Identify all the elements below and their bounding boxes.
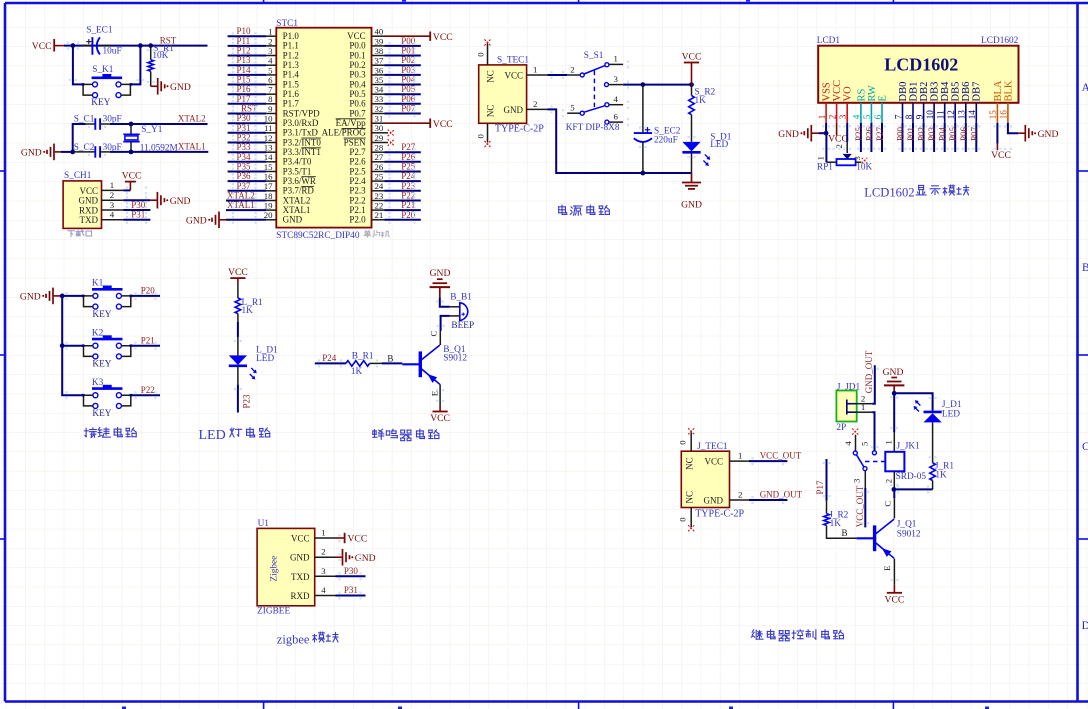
svg-text:6: 6 (268, 75, 273, 85)
svg-text:BEEP: BEEP (451, 321, 474, 331)
svg-text:P25: P25 (854, 126, 864, 141)
wire key right branch (131, 46, 141, 85)
resistor J_R1 (930, 461, 955, 489)
svg-text:TXD: TXD (291, 572, 310, 582)
svg-text:P27: P27 (875, 126, 885, 141)
svg-text:GND: GND (355, 553, 376, 564)
svg-text:10K: 10K (856, 163, 872, 173)
svg-text:2: 2 (883, 479, 893, 483)
svg-text:P1.7: P1.7 (283, 99, 300, 109)
svg-text:VCC: VCC (347, 31, 366, 41)
svg-text:P05: P05 (948, 126, 958, 141)
svg-text:1: 1 (110, 180, 114, 190)
wire gnd to crystal node (61, 151, 73, 153)
svg-text:DB2: DB2 (919, 82, 930, 102)
svg-text:P1.2: P1.2 (283, 50, 299, 60)
wire xtal2 (110, 123, 208, 125)
svg-text:P31: P31 (131, 210, 145, 220)
svg-text:P37: P37 (237, 181, 252, 191)
wire P23 (237, 385, 239, 413)
svg-text:P27: P27 (401, 142, 416, 152)
svg-text:E: E (882, 566, 892, 571)
svg-text:1: 1 (815, 156, 825, 160)
svg-text:XTAL2: XTAL2 (283, 195, 311, 205)
svg-text:19: 19 (264, 201, 273, 211)
svg-text:P0.2: P0.2 (349, 60, 365, 70)
power port VCC (mcu pin40) (385, 32, 453, 43)
power port VCC (lcd BLA) (991, 123, 1011, 161)
svg-text:P06: P06 (401, 94, 416, 104)
svg-text:5: 5 (268, 65, 273, 75)
wire switch pin3 to VCC rail (623, 84, 691, 86)
wire gnd node relay (892, 391, 933, 433)
svg-text:2: 2 (738, 489, 742, 499)
svg-text:S_CH1: S_CH1 (64, 171, 92, 181)
svg-text:P3.2/INT0: P3.2/INT0 (283, 137, 322, 147)
pin 0 top (S_TEC1) (475, 39, 490, 65)
svg-text:P00: P00 (401, 36, 416, 46)
pin 2 (J_JD1) (857, 393, 873, 403)
wire vcc to resistor (237, 278, 239, 298)
no-connect pin30 (385, 130, 395, 137)
svg-text:GND: GND (883, 367, 904, 378)
svg-text:6: 6 (873, 114, 883, 119)
svg-text:34: 34 (375, 85, 384, 95)
svg-text:10: 10 (925, 110, 935, 120)
pin 1 (S_TEC1) (527, 64, 548, 75)
svg-text:KEY: KEY (92, 360, 111, 370)
svg-text:P31: P31 (344, 585, 358, 595)
wire GND_OUT vertical (872, 365, 875, 403)
svg-text:GND: GND (681, 199, 702, 210)
svg-text:9: 9 (914, 114, 924, 119)
svg-text:DB5: DB5 (951, 82, 962, 102)
svg-text:P2.3: P2.3 (349, 186, 366, 196)
svg-text:37: 37 (375, 56, 384, 66)
svg-text:36: 36 (375, 65, 384, 75)
wire xtal1 (110, 151, 209, 153)
svg-text:P25: P25 (401, 162, 416, 172)
svg-text:GND: GND (430, 268, 451, 279)
svg-text:VCC: VCC (122, 170, 142, 181)
svg-text:P3.1/TxD: P3.1/TxD (283, 128, 319, 138)
mcu U STC1 box (276, 19, 371, 241)
svg-text:VCC: VCC (885, 594, 905, 605)
svg-text:P07: P07 (969, 126, 979, 141)
svg-text:LED: LED (710, 140, 728, 150)
label 下载口 (68, 230, 92, 237)
lcd LCD1 module box (817, 36, 1019, 103)
lcd pin names (822, 80, 1015, 102)
ground GND (relay) (883, 367, 905, 396)
svg-text:5: 5 (860, 441, 870, 446)
svg-text:15: 15 (988, 110, 998, 120)
title 继电器控制电路 (751, 630, 843, 641)
svg-text:GND: GND (704, 495, 724, 505)
svg-text:16: 16 (264, 172, 273, 182)
svg-text:2P: 2P (836, 423, 846, 433)
relay pin2 (883, 471, 894, 489)
svg-text:P1.4: P1.4 (283, 70, 300, 80)
svg-text:22: 22 (375, 201, 384, 211)
svg-text:P10: P10 (237, 26, 252, 36)
svg-text:P3.4/T0: P3.4/T0 (283, 157, 312, 167)
transistor J_Q1 (857, 489, 921, 584)
wire P20 (131, 295, 160, 297)
wire VCC_OUT (749, 460, 788, 462)
svg-text:GND: GND (778, 129, 799, 140)
svg-text:P04: P04 (401, 75, 416, 85)
no-connect RP1 pin3 (862, 158, 868, 164)
svg-text:1: 1 (533, 64, 537, 74)
ground GND (reset) (151, 78, 191, 95)
svg-text:P02: P02 (401, 55, 415, 65)
svg-text:GND: GND (170, 196, 191, 207)
svg-text:P01: P01 (401, 46, 415, 56)
svg-text:1: 1 (614, 54, 618, 64)
svg-text:12: 12 (264, 133, 273, 143)
svg-text:P07: P07 (401, 104, 416, 114)
svg-text:P22: P22 (401, 191, 415, 201)
svg-text:20: 20 (264, 210, 273, 220)
svg-text:P3.0/RxD: P3.0/RxD (283, 118, 319, 128)
svg-text:Zigbee: Zigbee (270, 556, 280, 582)
svg-text:BLK: BLK (1003, 80, 1014, 101)
svg-text:3: 3 (110, 200, 115, 210)
svg-text:P2.4: P2.4 (349, 176, 366, 186)
connector S_CH1 (63, 171, 101, 229)
svg-text:3: 3 (852, 478, 862, 483)
title LED灯电路 (199, 428, 270, 443)
svg-text:P11: P11 (237, 36, 251, 46)
title zigbee模块 (277, 632, 338, 646)
svg-text:J_TEC1: J_TEC1 (697, 442, 728, 452)
wire P21 (131, 345, 160, 347)
svg-text:5: 5 (570, 103, 575, 113)
svg-text:P1.5: P1.5 (283, 79, 300, 89)
svg-text:1K: 1K (695, 96, 707, 106)
wire gnd to buzzer pin1 (440, 297, 450, 307)
mcu right net wires P0 (385, 36, 421, 114)
svg-text:P3.7/RD: P3.7/RD (283, 186, 315, 196)
svg-text:NC: NC (685, 491, 695, 504)
buzzer B_B1 (450, 292, 474, 331)
lcd wires P00-P07 (896, 123, 980, 152)
svg-text:GND: GND (79, 196, 99, 206)
svg-text:BLA: BLA (993, 80, 1004, 101)
svg-text:P1.3: P1.3 (283, 60, 300, 70)
svg-text:P35: P35 (237, 162, 252, 172)
svg-text:25: 25 (375, 172, 384, 182)
svg-text:10K: 10K (152, 51, 168, 61)
svg-text:LED: LED (942, 409, 960, 419)
svg-text:6: 6 (614, 111, 619, 121)
svg-text:30: 30 (375, 123, 384, 133)
svg-text:S_K1: S_K1 (92, 65, 114, 75)
wire P30 (zigbee) (336, 575, 366, 577)
svg-text:26: 26 (375, 162, 384, 172)
svg-text:3: 3 (321, 566, 326, 576)
svg-text:P13: P13 (237, 55, 252, 65)
wire lcd BLK to gnd (1008, 123, 1018, 133)
svg-text:220uF: 220uF (654, 136, 678, 146)
svg-text:P23: P23 (242, 394, 252, 409)
svg-text:PSEN: PSEN (344, 137, 367, 147)
svg-text:A: A (1082, 82, 1088, 94)
resistor J_R2 (824, 501, 857, 539)
wire base (382, 362, 402, 364)
svg-text:27: 27 (375, 152, 384, 162)
key switch K1 (82, 279, 132, 320)
svg-text:2: 2 (110, 190, 114, 200)
svg-text:VCC: VCC (828, 133, 848, 144)
resistor L_R1 (235, 298, 263, 322)
svg-text:S_TEC1: S_TEC1 (497, 56, 529, 66)
svg-text:P2.6: P2.6 (349, 157, 366, 167)
svg-text:KEY: KEY (92, 310, 111, 320)
power port VCC (mcu pin31) (385, 119, 453, 130)
svg-text:GND: GND (1038, 129, 1059, 140)
svg-text:S_Y1: S_Y1 (141, 125, 163, 135)
svg-text:VCC: VCC (832, 80, 843, 102)
led S_D1 (682, 132, 731, 173)
ground GND (lcd right) (1018, 125, 1058, 142)
svg-text:4: 4 (110, 210, 115, 220)
wire P31 (S_CH1) (123, 219, 150, 221)
svg-text:P05: P05 (401, 84, 416, 94)
pin 0 bottom (S_TEC1) (475, 123, 490, 147)
svg-text:GND: GND (186, 215, 207, 226)
wire buzzer pin2 to collector (441, 316, 450, 331)
power port VCC (led circuit) (228, 267, 248, 278)
pin 1 (J_TEC1) (730, 451, 749, 462)
wire key left branch (73, 46, 83, 85)
mcu left pins (264, 27, 277, 221)
svg-text:KEY: KEY (91, 98, 110, 108)
lcd pin stubs and numbers (817, 103, 1009, 123)
capacitor S_EC1 (82, 25, 121, 56)
svg-text:S_C1: S_C1 (74, 115, 95, 125)
svg-text:C: C (883, 501, 893, 507)
power port VCC (lcd pin2) (828, 123, 848, 145)
svg-text:P1.6: P1.6 (283, 89, 300, 99)
lcd wires P25-P27 (854, 123, 885, 152)
svg-text:2: 2 (321, 547, 325, 557)
svg-text:RXD: RXD (79, 205, 99, 215)
power port VCC (S_CH1 pin1) (122, 170, 142, 190)
svg-text:GND: GND (504, 105, 524, 115)
svg-text:0: 0 (475, 52, 485, 57)
svg-text:P14: P14 (237, 65, 252, 75)
svg-text:ALE/PROG: ALE/PROG (322, 128, 367, 138)
svg-text:3: 3 (852, 156, 862, 161)
node dots power rail (641, 82, 694, 175)
svg-text:DB6: DB6 (961, 82, 972, 102)
svg-text:P30: P30 (237, 113, 252, 123)
svg-text:B: B (387, 353, 393, 363)
svg-text:15: 15 (264, 162, 273, 172)
svg-text:P30: P30 (131, 200, 146, 210)
wire P22 (131, 394, 160, 396)
svg-text:P33: P33 (237, 142, 252, 152)
relay switch contact 4 (843, 429, 858, 456)
svg-text:P3.5/T1: P3.5/T1 (283, 166, 312, 176)
svg-text:P0.4: P0.4 (349, 79, 366, 89)
key switch K3 (82, 378, 132, 419)
key switch S_K1 (83, 65, 130, 108)
svg-text:DB3: DB3 (930, 82, 941, 102)
svg-text:GND: GND (21, 148, 42, 159)
svg-text:P1.1: P1.1 (283, 41, 299, 51)
svg-text:P3.6/WR: P3.6/WR (283, 176, 316, 186)
title LCD1602显示模块 (864, 185, 968, 199)
switch S_S1 (566, 51, 623, 133)
svg-text:DB4: DB4 (940, 81, 951, 102)
svg-text:35: 35 (375, 75, 384, 85)
svg-text:21: 21 (375, 210, 384, 220)
svg-text:1: 1 (861, 402, 865, 412)
svg-text:11: 11 (264, 123, 272, 133)
svg-text:33: 33 (375, 94, 384, 104)
wire P31 (zigbee) (336, 595, 366, 597)
svg-text:P04: P04 (938, 126, 948, 141)
svg-text:D: D (1082, 620, 1088, 632)
potentiometer RP1 (815, 154, 872, 173)
svg-text:B: B (842, 528, 848, 538)
svg-text:P21: P21 (141, 335, 155, 345)
svg-text:S9012: S9012 (443, 353, 467, 363)
svg-text:XTAL1: XTAL1 (283, 205, 311, 215)
svg-text:GND_OUT: GND_OUT (864, 350, 874, 393)
svg-text:NC: NC (485, 105, 495, 118)
ground GND (zigbee pin2) (336, 549, 376, 566)
svg-text:P2.5: P2.5 (349, 166, 366, 176)
node crystal left (70, 124, 85, 154)
relay J_JK1 (885, 442, 926, 482)
svg-text:RW: RW (867, 85, 878, 101)
svg-text:NC: NC (485, 70, 495, 83)
svg-text:8: 8 (904, 114, 914, 119)
ground GND (supply) (681, 173, 702, 210)
svg-text:J_JK1: J_JK1 (897, 442, 921, 452)
svg-text:16: 16 (999, 110, 1009, 120)
svg-text:GND: GND (290, 553, 310, 563)
svg-text:38: 38 (375, 46, 384, 56)
svg-text:32: 32 (375, 104, 384, 114)
svg-text:3: 3 (838, 114, 848, 119)
svg-text:P12: P12 (237, 46, 251, 56)
label 单片机 (364, 230, 389, 237)
svg-text:P03: P03 (927, 126, 937, 141)
svg-text:29: 29 (375, 133, 384, 143)
svg-text:P21: P21 (401, 200, 415, 210)
svg-text:P32: P32 (237, 133, 251, 143)
svg-text:1K: 1K (351, 367, 363, 377)
resistor S_R1 (148, 44, 174, 87)
svg-text:GND: GND (170, 82, 191, 93)
connector J_TEC1 (681, 442, 744, 520)
power port VCC (reset) (32, 39, 64, 52)
svg-text:23: 23 (375, 191, 384, 201)
node junction dots reset rail (71, 43, 154, 48)
svg-text:P2.7: P2.7 (349, 147, 366, 157)
power port VCC (relay emitter) (885, 585, 905, 606)
svg-text:0: 0 (475, 134, 485, 139)
svg-text:1: 1 (268, 27, 272, 37)
svg-text:P34: P34 (237, 152, 252, 162)
svg-text:E: E (429, 391, 439, 396)
svg-text:S9012: S9012 (897, 530, 921, 540)
svg-text:13: 13 (264, 143, 273, 153)
resistor B_R1 (346, 351, 382, 377)
svg-text:LCD1602: LCD1602 (864, 185, 914, 199)
svg-text:zigbee: zigbee (277, 632, 310, 646)
svg-text:VCC: VCC (504, 70, 523, 80)
svg-text:1: 1 (883, 440, 893, 444)
pin 2 (J_TEC1) (730, 489, 749, 500)
svg-text:P16: P16 (237, 84, 252, 94)
svg-text:VCC: VCC (79, 186, 98, 196)
power port VCC (zigbee pin1) (336, 533, 368, 545)
svg-text:RP1: RP1 (817, 163, 833, 173)
title 按键电路 (84, 427, 136, 437)
svg-text:VCC: VCC (433, 32, 453, 43)
transistor B_Q1 (402, 331, 467, 406)
svg-text:P36: P36 (237, 171, 252, 181)
wire P30 (S_CH1) (123, 209, 150, 211)
svg-text:C: C (1082, 441, 1088, 453)
svg-text:8: 8 (268, 94, 273, 104)
svg-text:XTAL2: XTAL2 (227, 191, 255, 201)
wire TEC pin2 to bottom rail (547, 109, 691, 173)
svg-text:B: B (1082, 262, 1088, 274)
svg-text:10: 10 (264, 114, 273, 124)
power port VCC (supply) (682, 51, 702, 84)
svg-text:2: 2 (570, 64, 574, 74)
svg-text:B_B1: B_B1 (450, 292, 472, 302)
wire keys gnd rail (60, 294, 83, 396)
svg-text:P06: P06 (959, 126, 969, 141)
svg-text:XTAL1: XTAL1 (227, 200, 255, 210)
svg-text:RXD: RXD (290, 591, 310, 601)
svg-text:RST/VPD: RST/VPD (283, 108, 321, 118)
svg-text:P23: P23 (401, 181, 416, 191)
module U1 zigbee box (257, 519, 315, 617)
wire GND_OUT (749, 499, 788, 501)
svg-text:KEY: KEY (92, 409, 111, 419)
svg-text:18: 18 (264, 191, 273, 201)
svg-text:P0.7: P0.7 (349, 108, 366, 118)
wire lcd vo to pot wiper (834, 123, 847, 153)
pin 0 bottom (J_TEC1) (678, 508, 695, 532)
svg-text:P20: P20 (401, 210, 416, 220)
svg-text:TYPE-C-2P: TYPE-C-2P (495, 124, 544, 135)
svg-text:31: 31 (375, 114, 384, 124)
svg-text:VCC: VCC (991, 150, 1011, 161)
svg-text:4: 4 (843, 441, 853, 446)
svg-text:17: 17 (264, 181, 273, 191)
title 电源电路 (559, 205, 610, 215)
svg-text:K1: K1 (92, 279, 104, 289)
svg-text:U1: U1 (258, 519, 270, 529)
svg-text:P24: P24 (401, 171, 416, 181)
svg-text:P0.1: P0.1 (349, 50, 365, 60)
wire JD1 pin1 to contact5 (872, 412, 874, 450)
svg-text:1: 1 (321, 528, 325, 538)
svg-text:P00: P00 (896, 126, 906, 141)
svg-text:TYPE-C-2P: TYPE-C-2P (695, 508, 744, 519)
svg-text:9: 9 (268, 104, 273, 114)
